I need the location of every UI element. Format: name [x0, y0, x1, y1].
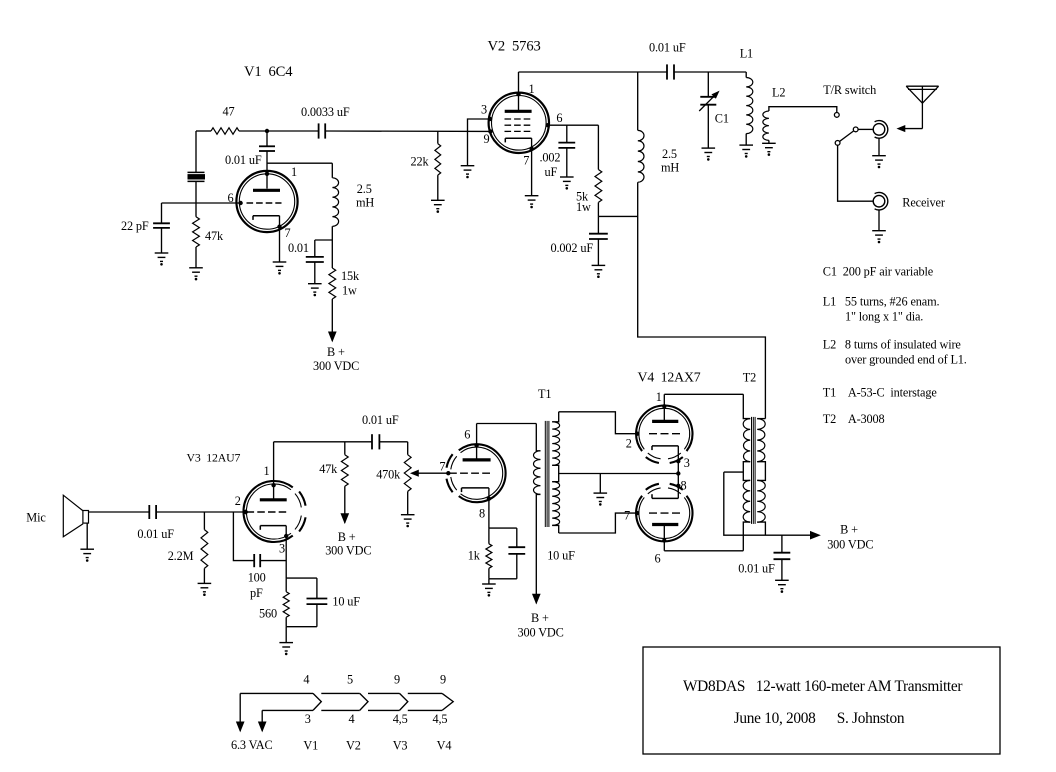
svg-text:V4 12AX7: V4 12AX7	[638, 369, 701, 384]
svg-text:over grounded end of L1.: over grounded end of L1.	[845, 353, 967, 367]
svg-text:22 pF: 22 pF	[121, 219, 149, 233]
svg-text:300 VDC: 300 VDC	[325, 544, 371, 558]
svg-text:3: 3	[684, 456, 690, 470]
svg-text:uF: uF	[545, 165, 558, 179]
svg-text:V3 12AU7: V3 12AU7	[187, 451, 241, 465]
svg-text:6: 6	[556, 111, 562, 125]
svg-text:3: 3	[279, 542, 285, 556]
svg-text:C1: C1	[715, 112, 729, 126]
svg-text:1: 1	[656, 390, 662, 404]
svg-text:mH: mH	[356, 196, 374, 210]
svg-text:WD8DAS 12-watt 160-meter AM: WD8DAS 12-watt 160-meter AM Transmitter	[683, 678, 962, 695]
svg-text:9: 9	[484, 132, 490, 146]
svg-text:V2: V2	[346, 739, 361, 753]
svg-text:0.01 uF: 0.01 uF	[362, 413, 399, 427]
svg-text:T2 A-3008: T2 A-3008	[823, 412, 885, 426]
svg-text:300 VDC: 300 VDC	[827, 538, 873, 552]
svg-text:8: 8	[479, 507, 485, 521]
svg-text:6: 6	[655, 552, 661, 566]
svg-text:1w: 1w	[342, 284, 357, 298]
svg-text:0.01 uF: 0.01 uF	[738, 562, 775, 576]
svg-text:0.01 uF: 0.01 uF	[649, 41, 686, 55]
svg-text:.002: .002	[540, 151, 561, 165]
svg-text:3: 3	[481, 103, 487, 117]
svg-text:5: 5	[347, 673, 353, 687]
svg-text:T/R switch: T/R switch	[823, 83, 876, 97]
svg-text:1" long x 1" dia.: 1" long x 1" dia.	[845, 310, 923, 324]
svg-text:10 uF: 10 uF	[332, 595, 360, 609]
svg-text:C1 200 pF air variable: C1 200 pF air variable	[823, 265, 934, 279]
svg-text:7: 7	[624, 509, 630, 523]
svg-text:6: 6	[228, 191, 234, 205]
svg-text:15k: 15k	[341, 269, 360, 283]
svg-text:0.0033 uF: 0.0033 uF	[301, 105, 350, 119]
svg-text:0.01 uF: 0.01 uF	[225, 153, 262, 167]
svg-text:B +: B +	[531, 611, 549, 625]
svg-text:4: 4	[349, 712, 355, 726]
svg-text:9: 9	[440, 673, 446, 687]
svg-text:T1 A-53-C interstage: T1 A-53-C interstage	[823, 386, 938, 400]
svg-text:mH: mH	[661, 161, 679, 175]
svg-text:June 10, 2008 S. Johnston: June 10, 2008 S. Johnston	[734, 710, 905, 727]
svg-text:4: 4	[303, 673, 309, 687]
svg-text:1: 1	[264, 464, 270, 478]
svg-text:2.5: 2.5	[662, 147, 677, 161]
svg-text:1: 1	[291, 165, 297, 179]
svg-text:B +: B +	[840, 523, 858, 537]
svg-text:6.3 VAC: 6.3 VAC	[231, 738, 273, 752]
svg-text:T2: T2	[743, 371, 756, 385]
svg-text:B +: B +	[327, 345, 345, 359]
svg-text:22k: 22k	[411, 155, 430, 169]
svg-text:7: 7	[523, 154, 529, 168]
svg-text:47k: 47k	[205, 229, 224, 243]
svg-text:100: 100	[248, 571, 266, 585]
svg-text:1: 1	[529, 82, 535, 96]
svg-text:2.5: 2.5	[357, 182, 372, 196]
svg-text:4,5: 4,5	[393, 712, 408, 726]
svg-text:2: 2	[626, 436, 632, 450]
svg-text:pF: pF	[250, 586, 263, 600]
svg-text:4,5: 4,5	[433, 712, 448, 726]
svg-text:300 VDC: 300 VDC	[313, 359, 359, 373]
svg-text:L1: L1	[740, 47, 753, 61]
svg-text:1k: 1k	[468, 549, 481, 563]
svg-text:T1: T1	[538, 387, 551, 401]
svg-text:V3: V3	[393, 739, 408, 753]
svg-text:47: 47	[223, 105, 235, 119]
svg-text:8: 8	[681, 479, 687, 493]
svg-text:2: 2	[235, 494, 241, 508]
svg-text:0.01: 0.01	[288, 241, 309, 255]
svg-text:10 uF: 10 uF	[547, 549, 575, 563]
svg-text:B +: B +	[338, 530, 356, 544]
svg-text:Receiver: Receiver	[902, 196, 945, 210]
svg-text:V4: V4	[437, 739, 452, 753]
svg-text:V1: V1	[303, 739, 318, 753]
svg-text:300 VDC: 300 VDC	[518, 626, 564, 640]
svg-text:7: 7	[439, 460, 445, 474]
svg-text:6: 6	[464, 428, 470, 442]
svg-text:V1 6C4: V1 6C4	[244, 64, 293, 80]
svg-text:0.002 uF: 0.002 uF	[551, 241, 594, 255]
svg-text:9: 9	[394, 673, 400, 687]
svg-text:2.2M: 2.2M	[168, 549, 194, 563]
svg-text:7: 7	[285, 226, 291, 240]
svg-text:L2 8 turns of insulated wire: L2 8 turns of insulated wire	[823, 338, 962, 352]
svg-text:47k: 47k	[319, 462, 338, 476]
svg-text:3: 3	[305, 712, 311, 726]
svg-text:470k: 470k	[376, 468, 401, 482]
svg-text:L2: L2	[772, 86, 785, 100]
svg-text:V2 5763: V2 5763	[488, 39, 541, 55]
svg-text:1w: 1w	[576, 200, 591, 214]
svg-text:0.01 uF: 0.01 uF	[137, 527, 174, 541]
svg-text:Mic: Mic	[26, 511, 46, 525]
svg-text:560: 560	[259, 607, 277, 621]
svg-text:L1 55 turns, #26 enam.: L1 55 turns, #26 enam.	[823, 295, 940, 309]
